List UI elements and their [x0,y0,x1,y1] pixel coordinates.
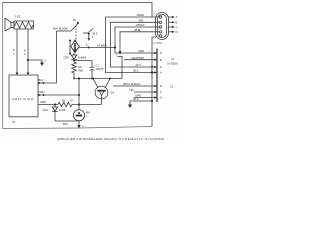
svg-text:150UF: 150UF [96,67,104,71]
svg-text:(U-182/U: (U-182/U [167,62,178,66]
svg-text:13WHT: 13WHT [136,23,145,27]
svg-text:HEADSET: HEADSET [132,56,145,60]
J1 pin C [169,25,178,29]
ground mic [78,121,80,125]
wire gnd row [130,101,152,105]
svg-text:BLK: BLK [134,69,139,73]
wire route 3 [115,27,159,53]
wire speaker lead 2 [24,29,29,75]
wire headset row [121,57,123,79]
svg-text:BLK BLADE: BLK BLADE [53,27,68,31]
connector J2 bar [156,49,158,103]
svg-text:G: G [160,96,162,100]
wire top loop [3,3,153,18]
svg-text:LS1: LS1 [15,15,21,19]
svg-text:14WH: 14WH [137,13,145,17]
svg-text:BLK: BLK [134,97,139,101]
wire spare row [134,91,157,93]
svg-text:SCHEMATIC DIAGRAM: SCHEMATIC DIAGRAM [119,137,165,141]
svg-text:(BLU) SHIELD: (BLU) SHIELD [123,82,141,86]
pin RED wire with resistor R1 [38,99,102,107]
connector J1 (oval) [154,13,169,46]
wire ground stub [28,60,42,63]
svg-text:RED: RED [41,100,47,104]
transistor Q1 [93,79,115,105]
diode CR1 [43,105,66,122]
wire grn row [134,97,157,99]
ground chassis [40,63,44,67]
J2 pins [154,52,157,54]
svg-text:CR2: CR2 [64,56,70,60]
J1 pin A [169,15,178,19]
pin GRN wire [38,90,79,96]
svg-text:R2: R2 [79,65,83,69]
svg-text:R1: R1 [62,99,66,103]
svg-text:680: 680 [79,69,84,73]
svg-text:1N48: 1N48 [59,108,66,112]
svg-text:J3: J3 [170,85,173,89]
wire base rail [74,78,122,80]
jack arrow joint [119,51,122,55]
switch S1 pole A [71,18,79,31]
svg-text:J2: J2 [171,57,174,61]
wire switch feed [57,30,72,32]
wire route 4 [120,32,159,51]
node speaker lead 2 ground tap [27,59,29,61]
svg-text:ACT: ACT [136,63,142,67]
svg-text:C: C [176,25,178,29]
wire mic bottom [55,120,79,122]
svg-text:D: D [176,30,178,34]
resistor R2 (vertical zigzag) [72,60,84,79]
svg-text:U-77/U: U-77/U [154,41,163,45]
microphone MK1 [73,110,90,121]
svg-text:YEL: YEL [129,88,135,92]
svg-text:GRN: GRN [135,94,141,98]
J1 pin B [169,21,178,25]
wire bottom loop [3,127,153,129]
J1 pin D [169,30,178,34]
svg-text:AMPLIFIER-LOUDSPEAKER AM-26/U: AMPLIFIER-LOUDSPEAKER AM-26/U [57,137,118,141]
svg-text:C: C [160,65,162,69]
svg-text:S1: S1 [73,18,77,22]
wire shield row [113,85,157,87]
svg-text:B: B [176,21,178,25]
svg-text:38.BL: 38.BL [134,28,142,32]
wire lamp to node [79,47,115,49]
wire route 2 [111,22,160,67]
svg-text:A1: A1 [12,120,16,124]
wire riser to switch [56,31,58,83]
switch linkage (dashed) [75,26,77,41]
svg-text:RED: RED [139,49,145,53]
wire C1 branch top [74,61,92,67]
svg-text:C1: C1 [96,63,100,67]
svg-text:MK: MK [86,111,90,115]
svg-text:D: D [160,51,162,55]
wire route 1 (outer staple) [106,17,160,73]
svg-text:36.6: 36.6 [92,32,98,36]
wire right ground bus [152,37,156,127]
wire speaker lead 1 [13,29,18,75]
svg-text:7RD: 7RD [138,19,143,23]
amplifier A1 box [9,75,38,117]
svg-text:BLU: BLU [39,78,44,82]
loudspeaker LS1 [5,15,34,32]
svg-text:47: 47 [70,99,73,103]
svg-text:B: B [160,58,162,62]
svg-text:A: A [176,15,178,19]
switch S1 pole B [83,29,98,42]
svg-text:1N648: 1N648 [78,56,86,60]
wire riser mic column [78,79,80,110]
wire ground loop left border [2,3,4,129]
pin BLU wire [38,78,57,84]
svg-text:BLK: BLK [63,122,68,126]
svg-text:Q1: Q1 [111,91,115,95]
svg-text:CR1: CR1 [43,108,49,112]
svg-text:AMPLIFIER: AMPLIFIER [12,97,34,101]
svg-text:E: E [160,84,162,88]
lamp DS1 (diamond) [69,40,79,55]
svg-text:GRN: GRN [39,90,45,94]
ground chassis 2 [128,105,132,109]
svg-text:A: A [160,71,162,75]
diode CR2 [64,53,87,60]
capacitor C1 [90,66,95,68]
